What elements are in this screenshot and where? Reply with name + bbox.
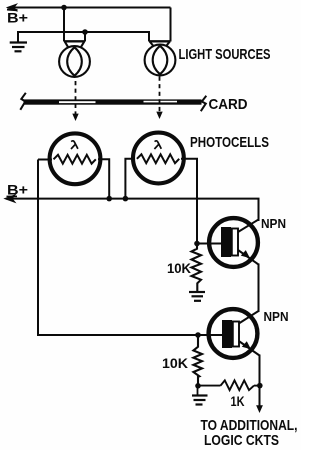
card (punched card bar)	[20, 93, 206, 111]
Q1 collector lead	[238, 220, 259, 233]
node junction R2 bottom	[195, 383, 201, 389]
transistor Q2 (NPN)	[198, 309, 260, 358]
Q1 base lead	[197, 243, 221, 245]
svg-text:PHOTOCELLS: PHOTOCELLS	[190, 134, 269, 151]
wire PC2 left lead	[125, 159, 134, 199]
svg-text:LIGHT SOURCES: LIGHT SOURCES	[179, 46, 271, 63]
svg-text:10K: 10K	[162, 355, 188, 371]
light beam arrow 2 (dashed)	[156, 77, 162, 120]
ground below R2	[192, 386, 208, 405]
node junction Q1 base	[194, 241, 200, 247]
svg-text:B+: B+	[7, 182, 28, 198]
lamp DS2 (light source)	[145, 41, 176, 75]
node junction ground bus (lamp1 right tap)	[82, 29, 88, 35]
Q2 base lead	[198, 334, 222, 336]
wire PC2 right lead	[181, 159, 197, 249]
node junction R3 to emitter line	[257, 383, 263, 389]
light beam arrow 1 (dashed)	[72, 81, 78, 121]
arrow output (points down)	[256, 405, 263, 413]
wire ground bus y=32	[18, 32, 149, 42]
transistor Q1 (NPN)	[197, 218, 259, 267]
wire lamp2 right lead from top bus corner	[170, 8, 172, 42]
ground top-left	[10, 43, 27, 52]
resistor R3 1K	[198, 380, 260, 390]
underline under B	[7, 195, 18, 197]
wire PC1 right lead	[98, 159, 109, 198]
wire Q2 emitter down to output	[259, 355, 261, 407]
wire lamp1 right lead	[84, 32, 86, 42]
ground below R1	[189, 292, 205, 301]
wire PC1 left lead	[38, 159, 52, 161]
node junction top (lamp1 left tap)	[61, 5, 67, 11]
wire top B+ bus	[9, 7, 171, 9]
svg-text:NPN: NPN	[261, 216, 286, 231]
photocell PC2	[125, 133, 197, 249]
wire Q1 emitter to Q2 collector	[258, 264, 260, 313]
resistor R1 10K	[192, 246, 202, 291]
lamp DS1 (light source)	[59, 41, 90, 77]
overbar mark above B	[7, 8, 18, 11]
svg-text:B+: B+	[7, 10, 28, 26]
arrow B+ top (points left)	[7, 4, 16, 11]
wire B+ bus (middle)	[6, 199, 259, 221]
Q2 emitter lead with arrow	[239, 341, 260, 356]
card left break mark	[20, 93, 26, 110]
svg-text:CARD: CARD	[209, 96, 248, 113]
svg-text:LOGIC CKTS: LOGIC CKTS	[204, 432, 279, 449]
wire PC1 to Q2 base	[38, 160, 198, 336]
photocell PC1	[38, 133, 109, 198]
node junction Q2 base	[195, 332, 201, 338]
svg-text:10K: 10K	[167, 260, 191, 276]
card right break mark	[201, 96, 207, 111]
wire lamp1 left lead	[63, 8, 65, 42]
resistor R2 10K	[193, 335, 202, 386]
svg-text:NPN: NPN	[264, 309, 289, 324]
svg-text:1K: 1K	[231, 393, 245, 409]
arrow B+ middle (points left)	[5, 195, 15, 202]
node junction PC2 to B+ bus	[123, 196, 129, 202]
node junction PC1 to B+ bus	[106, 196, 112, 202]
Q1 emitter lead with arrow	[238, 250, 259, 265]
Q2 collector lead	[239, 311, 259, 324]
